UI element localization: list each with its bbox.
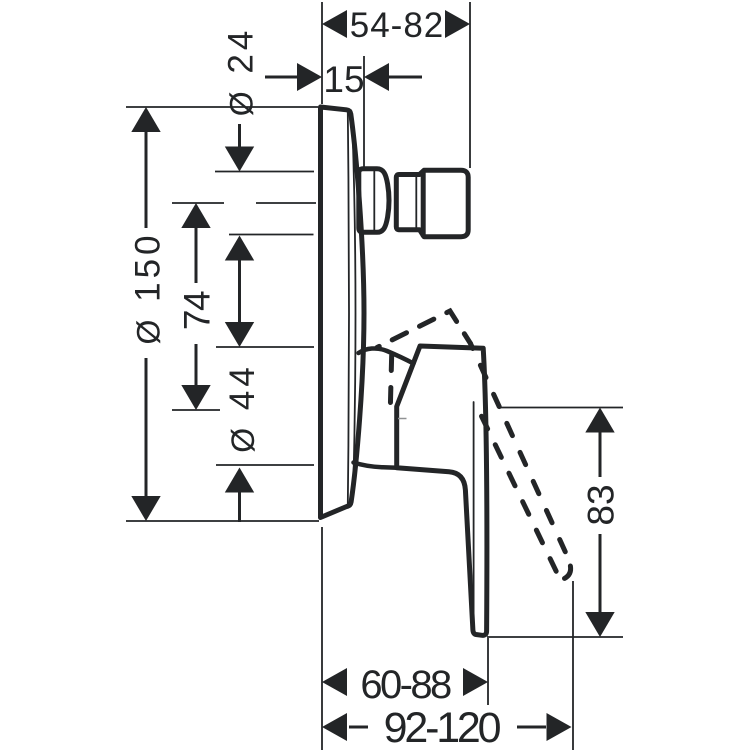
svg-text:60-88: 60-88 (360, 663, 451, 707)
svg-text:Ø 24: Ø 24 (222, 27, 261, 117)
svg-text:Ø 150: Ø 150 (129, 231, 168, 344)
svg-text:Ø 44: Ø 44 (223, 363, 262, 453)
svg-text:92-120: 92-120 (384, 704, 501, 750)
svg-text:15: 15 (323, 59, 364, 100)
svg-text:83: 83 (581, 484, 622, 525)
svg-text:54-82: 54-82 (350, 6, 445, 45)
svg-text:74: 74 (177, 291, 218, 330)
